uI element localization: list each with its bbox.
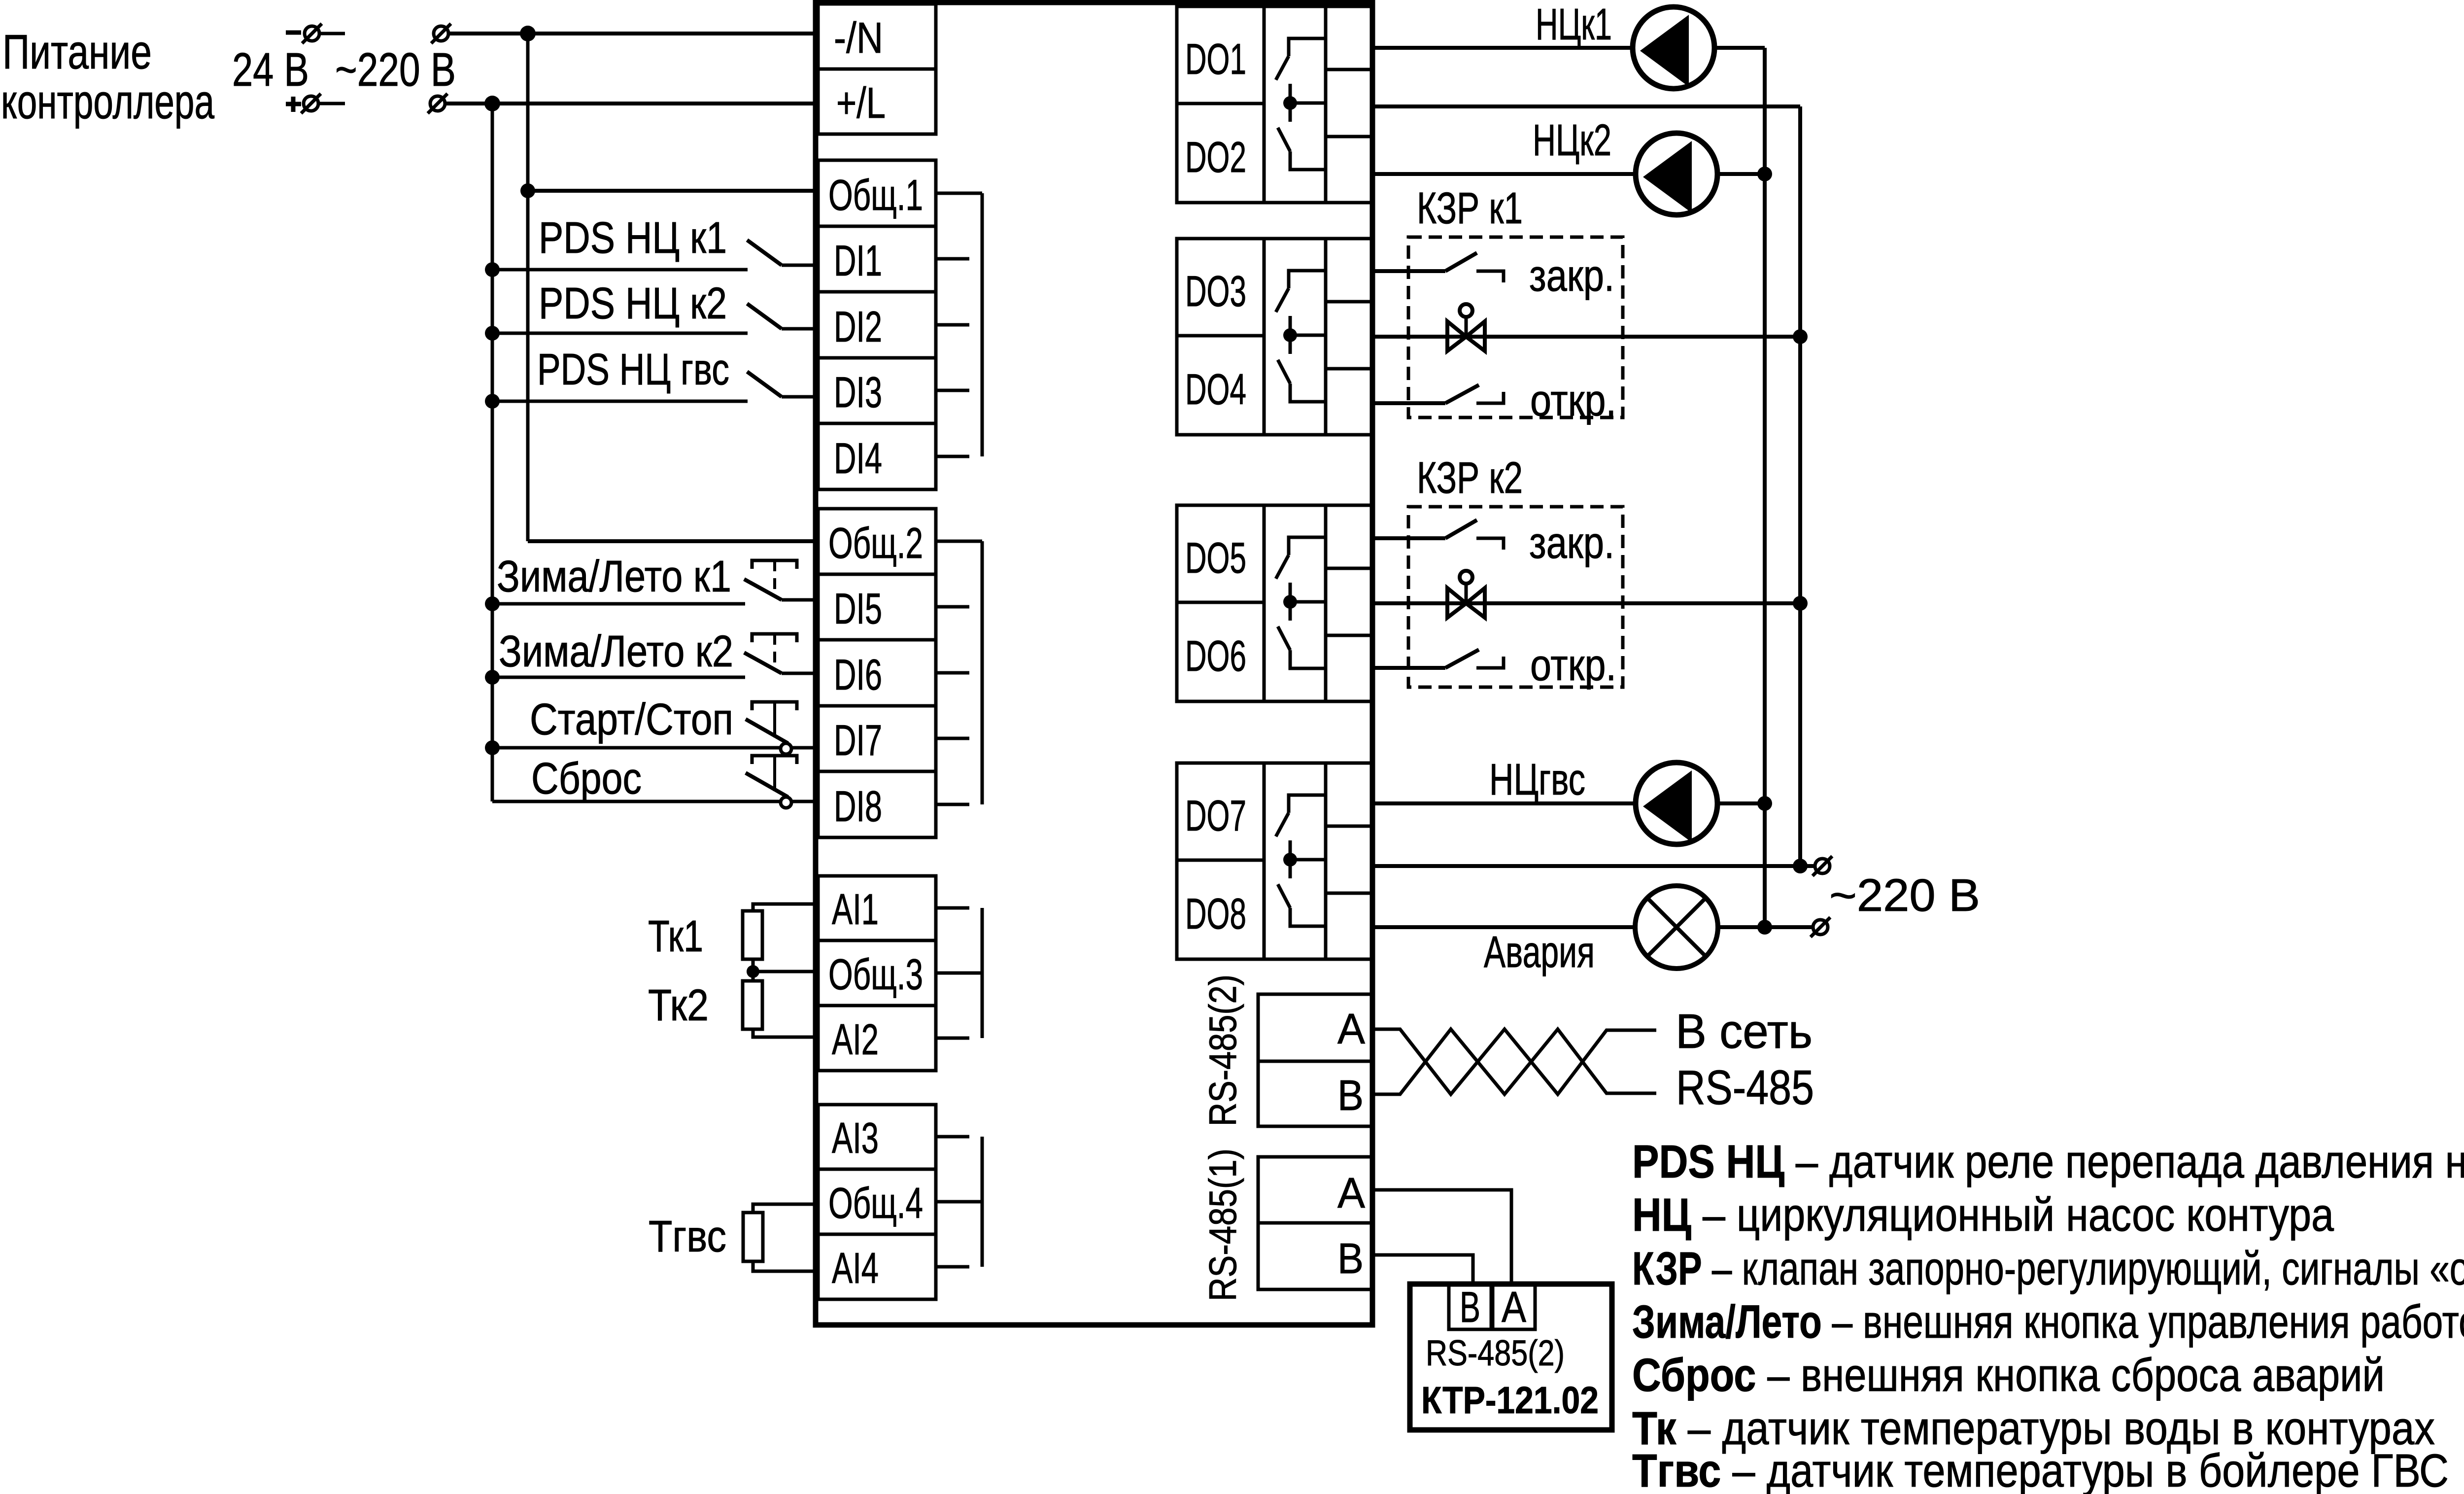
switch blade PDS NC k1 — [747, 240, 782, 265]
screw terminal ~220 top-left — [434, 26, 448, 41]
internal stub DI2 — [936, 323, 969, 327]
switch zakr k2 contact — [1476, 538, 1504, 550]
svg-text:НЦк2: НЦк2 — [1533, 116, 1611, 165]
internal stub AI1 — [936, 906, 969, 910]
relay pole line DO1 — [1289, 84, 1292, 122]
svg-text:Авария: Авария — [1484, 928, 1595, 977]
svg-text:PDS НЦ к2: PDS НЦ к2 — [539, 279, 727, 328]
relay pole wire DO3 — [1290, 334, 1326, 337]
svg-text:DO8: DO8 — [1185, 889, 1246, 938]
terminal DI7 box — [818, 706, 936, 771]
terminal DI8 box — [818, 771, 936, 837]
svg-text:RS-485(2): RS-485(2) — [1201, 974, 1244, 1126]
wire L line — [445, 102, 816, 105]
svg-text:AI1: AI1 — [832, 885, 879, 934]
relay DO5 top contact — [1289, 537, 1326, 555]
wire N line — [449, 32, 816, 35]
sensor Tgvs resistor — [743, 1213, 763, 1261]
RS-485(1) divider — [1258, 1221, 1373, 1225]
wire pump NCgvs to bus1 — [1717, 801, 1765, 805]
junction dot NCgvs-bus1 — [1757, 796, 1772, 811]
contact circle Sbros — [781, 797, 791, 808]
svg-text:DO1: DO1 — [1185, 35, 1246, 83]
internal stub DI7 — [936, 737, 969, 740]
internal stub Obsh.2 — [936, 540, 982, 543]
contact circle Start/Stop — [781, 743, 791, 754]
svg-text:Общ.4: Общ.4 — [828, 1179, 923, 1227]
wire PDS NC k2 to DI box — [782, 327, 818, 331]
svg-text:RS-485(2): RS-485(2) — [1426, 1333, 1565, 1373]
twisted pair wire A — [1373, 1029, 1656, 1094]
internal stub DI8 — [936, 803, 969, 806]
KTR terminal B box — [1449, 1284, 1491, 1329]
RS-485(1) terminal box — [1258, 1157, 1373, 1289]
pump НЦгвс — [1636, 763, 1717, 844]
relay DO1 top contact — [1289, 38, 1326, 56]
terminal AI4 box — [818, 1234, 936, 1299]
junction dot NCk2-bus1 — [1757, 167, 1772, 181]
terminal DI6 box — [818, 640, 936, 706]
relay pole line DO7 — [1289, 840, 1292, 878]
junction dot PDS NC k2 — [485, 326, 500, 341]
junction dot Tk — [747, 965, 759, 978]
twisted pair wire B — [1373, 1029, 1656, 1094]
wire pump NCk1 to bus1 — [1714, 46, 1765, 50]
terminal +/L box — [818, 69, 936, 134]
valve k1 body — [1447, 321, 1485, 351]
svg-text:-/N: -/N — [834, 13, 883, 62]
relay DO7 top contact — [1289, 795, 1326, 813]
relay DO3 top contact — [1289, 271, 1326, 288]
svg-text:~220 В: ~220 В — [1829, 869, 1980, 921]
junction dot lamp-bus1 — [1757, 920, 1772, 935]
relay DO4 bottom blade — [1278, 360, 1290, 383]
wire DO7 to pump NCgvs — [1373, 801, 1637, 805]
svg-text:DI5: DI5 — [834, 584, 882, 633]
relay pole dot DO1 — [1283, 96, 1297, 110]
bus L2 vertical — [491, 104, 494, 801]
svg-text:контроллера: контроллера — [1, 74, 214, 129]
relay pole wire DO1 — [1290, 102, 1326, 105]
terminal DI1 box — [818, 226, 936, 292]
relay DO6 bottom contact — [1290, 650, 1326, 668]
svg-text:КТР-121.02: КТР-121.02 — [1421, 1379, 1599, 1422]
svg-text:В сеть: В сеть — [1676, 1004, 1813, 1058]
DO block relay column line — [1263, 505, 1266, 701]
relay DO5 top blade — [1276, 555, 1289, 579]
svg-text:RS-485: RS-485 — [1676, 1060, 1814, 1114]
wire Zima/Leto k2 to DI box — [782, 672, 818, 675]
wire Start/Stop to DI box — [791, 746, 818, 750]
svg-text:НЦк1: НЦк1 — [1536, 0, 1612, 49]
DO terminal sub-divider a — [1326, 68, 1373, 71]
svg-text:закр.: закр. — [1529, 519, 1614, 568]
relay pole dot DO5 — [1283, 595, 1297, 609]
right bus 1 vertical — [1763, 48, 1767, 927]
svg-text:закр.: закр. — [1529, 251, 1614, 301]
DO terminal sub-divider b — [1326, 367, 1373, 371]
relay pole wire DO7 — [1290, 858, 1326, 862]
wire pump NCk2 to bus1 — [1717, 172, 1765, 176]
svg-text:AI2: AI2 — [832, 1015, 879, 1064]
DO terminal sub-divider b — [1326, 892, 1373, 895]
svg-text:Зима/Лето – внешняя кнопка упр: Зима/Лето – внешняя кнопка управления ра… — [1632, 1296, 2464, 1348]
svg-text:B: B — [1337, 1235, 1364, 1283]
wire RS-485(1) A — [1373, 1190, 1511, 1284]
switch otkr k1 contact — [1476, 392, 1504, 403]
switch blade Zima/Leto k1 — [744, 579, 782, 600]
screw terminal ~220 top-right — [1815, 859, 1830, 873]
right bus 2 vertical — [1798, 106, 1802, 866]
svg-text:DO4: DO4 — [1185, 365, 1246, 414]
svg-text:PDS НЦ гвс: PDS НЦ гвс — [537, 345, 729, 394]
wire Zima/Leto k2 fixed — [492, 676, 745, 679]
internal collector g2 — [981, 193, 984, 456]
internal stub AI2 — [936, 1037, 969, 1040]
svg-text:AI3: AI3 — [832, 1113, 879, 1162]
svg-text:Общ.2: Общ.2 — [828, 519, 923, 567]
wire DO4 otkr k1 — [1373, 401, 1445, 405]
svg-text:DO5: DO5 — [1185, 533, 1246, 582]
minus sign — [286, 31, 301, 35]
svg-text:Сброс – внешняя кнопка сброса: Сброс – внешняя кнопка сброса аварий — [1632, 1349, 2385, 1401]
svg-text:Старт/Стоп: Старт/Стоп — [530, 695, 733, 744]
DO terminal sub-divider b — [1326, 634, 1373, 637]
svg-text:Зима/Лето к1: Зима/Лето к1 — [497, 552, 731, 601]
wire from plus screw — [319, 102, 345, 105]
svg-text:Питание: Питание — [2, 25, 152, 79]
screw terminal plus — [304, 96, 318, 111]
relay pole dot DO3 — [1283, 328, 1297, 342]
junction dot L1-Obsh1 — [520, 183, 535, 198]
switch blade PDS NC gvs — [747, 372, 782, 397]
switch otkr k2 blade — [1445, 650, 1479, 668]
terminal DI3 box — [818, 358, 936, 423]
KTR-121.02 box — [1410, 1284, 1612, 1430]
internal stub AI3 — [936, 1135, 969, 1139]
wire Tk1 to AI1 — [753, 904, 818, 911]
svg-text:DI4: DI4 — [834, 434, 882, 483]
button stem Sbros — [773, 756, 776, 791]
DO block relay column line — [1263, 763, 1266, 959]
svg-text:+/L: +/L — [836, 78, 886, 127]
button bracket Sbros — [752, 756, 797, 764]
svg-text:Общ.1: Общ.1 — [828, 171, 923, 219]
svg-text:Тгвс: Тгвс — [649, 1212, 726, 1261]
switch dashed stem Zima/Leto k1 — [773, 560, 776, 597]
wire DO2 to pump NCk2 — [1373, 172, 1636, 176]
internal stub DI1 — [936, 257, 969, 261]
terminal AI2 box — [818, 1006, 936, 1071]
switch blade PDS NC k2 — [747, 304, 782, 329]
DO block terminal column line — [1324, 505, 1328, 701]
terminal Obsh4 box — [818, 1169, 936, 1234]
DO terminal sub-divider a — [1326, 825, 1373, 828]
KTR terminal A box — [1493, 1284, 1535, 1329]
wire Tk common to Obsh.3 — [753, 970, 818, 973]
relay pole line DO3 — [1289, 316, 1292, 354]
wire Tk2 to AI2 — [753, 1029, 818, 1037]
svg-text:DO7: DO7 — [1185, 791, 1246, 840]
junction dot PDS NC gvs — [485, 394, 500, 409]
wire Zima/Leto k1 to DI box — [782, 598, 818, 602]
internal collector g5 — [981, 1137, 984, 1267]
DO block terminal column line — [1324, 763, 1328, 959]
svg-text:НЦ – циркуляционный насос конт: НЦ – циркуляционный насос контура — [1632, 1189, 2334, 1241]
terminal DI5 box — [818, 574, 936, 640]
junction dot PDS NC k1 — [485, 262, 500, 277]
relay DO3 top blade — [1276, 288, 1289, 312]
pump НЦк2 — [1636, 133, 1717, 215]
svg-text:Тгвс – датчик температуры в бо: Тгвс – датчик температуры в бойлере ГВС — [1632, 1445, 2449, 1494]
wire PDS NC k1 fixed — [492, 268, 748, 272]
relay DO1 top blade — [1276, 56, 1289, 80]
wire DO1 to pump NCk1 — [1373, 46, 1633, 50]
svg-text:~220 В: ~220 В — [335, 43, 456, 96]
svg-text:DI2: DI2 — [834, 302, 882, 351]
valve k2 head — [1460, 571, 1472, 584]
relay pole wire DO5 — [1290, 600, 1326, 604]
terminal Obsh1 box — [818, 160, 936, 226]
wire RS-485(1) B — [1373, 1255, 1473, 1284]
relay DO6 bottom blade — [1278, 626, 1290, 650]
bus L1 vertical — [526, 34, 530, 541]
switch bracket Zima/Leto k1 — [752, 560, 797, 569]
button stem Start/Stop — [773, 702, 776, 737]
relay DO2 bottom blade — [1278, 128, 1290, 151]
relay DO4 bottom contact — [1290, 383, 1326, 402]
button bracket Start/Stop — [752, 702, 797, 710]
relay DO7 top blade — [1276, 813, 1289, 836]
svg-text:Тк2: Тк2 — [648, 981, 709, 1030]
svg-text:PDS НЦ к1: PDS НЦ к1 — [539, 213, 727, 263]
wire to Obsh.1 — [528, 189, 818, 193]
DO block divider DO5 — [1177, 601, 1264, 604]
junction dot valve k2 bus2 — [1793, 596, 1808, 611]
svg-text:DO3: DO3 — [1185, 267, 1246, 315]
switch blade Start/Stop — [746, 719, 788, 743]
relay pole dot DO7 — [1283, 853, 1297, 867]
DO block divider DO1 — [1177, 102, 1264, 105]
pump НЦк1 — [1633, 7, 1714, 89]
relay DO8 bottom contact — [1290, 908, 1326, 926]
internal collector g4 — [981, 908, 984, 1038]
svg-text:НЦгвс: НЦгвс — [1489, 755, 1585, 804]
svg-text:A: A — [1337, 1169, 1365, 1217]
wire PDS NC gvs fixed — [492, 400, 748, 403]
internal stub DI6 — [936, 671, 969, 675]
svg-text:DI7: DI7 — [834, 716, 882, 764]
wire Zima/Leto k1 fixed — [492, 602, 745, 606]
svg-text:B: B — [1460, 1283, 1480, 1331]
wire Sbros fixed — [492, 800, 781, 803]
wire Tgvs to Obsh.4 — [753, 1204, 818, 1213]
svg-text:DI1: DI1 — [834, 236, 882, 285]
svg-text:DI8: DI8 — [834, 782, 882, 831]
svg-text:Зима/Лето к2: Зима/Лето к2 — [499, 627, 733, 676]
wire to Obsh.2 — [528, 539, 818, 543]
wire lamp to screw — [1718, 925, 1813, 929]
terminal DI4 box — [818, 423, 936, 489]
valve k1 head — [1460, 304, 1472, 317]
switch dashed stem Zima/Leto k2 — [773, 634, 776, 670]
internal stub Obsh.4 — [936, 1200, 982, 1204]
switch blade Sbros — [746, 773, 788, 797]
switch otkr k1 blade — [1445, 385, 1479, 403]
wire Tgvs to AI4 — [753, 1261, 818, 1271]
svg-text:КЗР – клапан запорно-регулирую: КЗР – клапан запорно-регулирующий, сигна… — [1632, 1243, 2464, 1295]
svg-text:Тк1: Тк1 — [648, 912, 703, 961]
internal collector g3 — [981, 541, 984, 804]
svg-text:КЗР к2: КЗР к2 — [1417, 453, 1523, 503]
switch zakr k1 contact — [1476, 271, 1504, 282]
terminal -/N box — [818, 4, 936, 69]
screw terminal minus — [305, 26, 319, 41]
svg-text:Сброс: Сброс — [531, 754, 642, 803]
terminal DI2 box — [818, 292, 936, 358]
valve k1 stem — [1465, 318, 1468, 337]
DO terminal sub-divider b — [1326, 135, 1373, 139]
svg-text:B: B — [1337, 1072, 1364, 1119]
sensor Tk1 resistor — [743, 911, 762, 959]
junction dot Start/Stop — [485, 740, 500, 755]
switch zakr k1 blade — [1445, 253, 1477, 271]
svg-text:откр.: откр. — [1530, 641, 1616, 690]
svg-text:откр.: откр. — [1530, 376, 1616, 425]
lamp Авария — [1635, 886, 1718, 969]
plus sign — [286, 102, 301, 106]
internal stub AI4 — [936, 1265, 969, 1269]
DO terminal sub-divider a — [1326, 300, 1373, 304]
relay DO2 bottom contact — [1290, 151, 1326, 170]
junction dot common-bus2 — [1793, 859, 1808, 873]
internal stub DI5 — [936, 605, 969, 609]
valve k2 stem — [1465, 585, 1468, 603]
DO block terminal column line — [1324, 6, 1328, 203]
terminal Obsh3 box — [818, 940, 936, 1006]
svg-text:КЗР к1: КЗР к1 — [1417, 184, 1523, 233]
controller main box outline — [816, 2, 1372, 1325]
DO block terminal column line — [1324, 239, 1328, 435]
wire DO34 common valve k1 — [1373, 335, 1800, 339]
DO block DO7/DO8 outline — [1177, 763, 1373, 959]
valve k2 body — [1447, 588, 1485, 618]
DO block DO5/DO6 outline — [1177, 505, 1373, 701]
KZR k1 dashed box — [1408, 237, 1623, 417]
switch blade Zima/Leto k2 — [744, 653, 782, 673]
svg-text:RS-485(1): RS-485(1) — [1201, 1148, 1244, 1301]
svg-text:DI6: DI6 — [834, 650, 882, 699]
sensor Tk2 resistor — [743, 981, 762, 1029]
wire DO78 common to screw — [1373, 864, 1814, 868]
svg-text:DO6: DO6 — [1185, 631, 1246, 680]
svg-text:24 В: 24 В — [232, 43, 309, 96]
wire PDS NC k2 fixed — [492, 332, 748, 335]
wire Tk1-Tk2 link — [752, 959, 755, 981]
screw terminal ~220 bottom-right — [1813, 920, 1828, 935]
wire PDS NC k1 to DI box — [782, 264, 818, 267]
wire DO56 common valve k2 — [1373, 601, 1800, 605]
switch zakr k2 blade — [1445, 520, 1477, 538]
junction dot Zima/Leto k1 — [485, 596, 500, 611]
RS-485(2) divider — [1258, 1060, 1373, 1063]
DO block divider DO7 — [1177, 859, 1264, 862]
wire DO3 zakr k1 — [1373, 269, 1445, 273]
svg-text:AI4: AI4 — [832, 1244, 879, 1292]
internal stub Obsh.3 — [936, 972, 982, 975]
wire PDS NC gvs to DI box — [782, 395, 818, 399]
DO block DO3/DO4 outline — [1177, 239, 1373, 435]
relay DO8 bottom blade — [1278, 884, 1290, 908]
wire DO8 to lamp — [1373, 925, 1635, 929]
wire DO6 otkr k2 — [1373, 666, 1445, 670]
junction dot N/L1 — [520, 26, 536, 41]
switch bracket Zima/Leto k2 — [752, 634, 797, 642]
RS-485(2) terminal box — [1258, 994, 1373, 1126]
terminal AI1 box — [818, 876, 936, 940]
screw terminal ~220 bottom-left — [430, 96, 445, 111]
internal stub Obsh.1 — [936, 192, 982, 195]
relay pole line DO5 — [1289, 583, 1292, 621]
svg-text:PDS НЦ – датчик реле перепада: PDS НЦ – датчик реле перепада давления н… — [1632, 1136, 2464, 1188]
internal stub DI4 — [936, 455, 969, 458]
terminal Obsh2 box — [818, 509, 936, 574]
wire Sbros to DI box — [791, 800, 818, 803]
DO block relay column line — [1263, 239, 1266, 435]
svg-text:Общ.3: Общ.3 — [828, 950, 923, 999]
wire Start/Stop fixed — [492, 746, 781, 750]
wire DO12 common to bus2 — [1373, 104, 1800, 108]
terminal AI3 box — [818, 1105, 936, 1169]
DO terminal sub-divider a — [1326, 567, 1373, 570]
DO block relay column line — [1263, 6, 1266, 203]
junction dot valve k1 bus2 — [1793, 329, 1808, 344]
KZR k2 dashed box — [1408, 507, 1623, 687]
DO block divider DO3 — [1177, 334, 1264, 338]
junction dot L/L2 — [484, 96, 500, 111]
wire DO5 zakr k2 — [1373, 536, 1445, 540]
svg-text:A: A — [1502, 1283, 1526, 1331]
DO block DO1/DO2 outline — [1177, 6, 1373, 203]
svg-text:A: A — [1337, 1005, 1365, 1053]
svg-text:DI3: DI3 — [834, 368, 882, 417]
wire from minus screw — [320, 32, 345, 35]
switch otkr k2 contact — [1476, 657, 1504, 668]
internal stub DI3 — [936, 389, 969, 392]
junction dot Zima/Leto k2 — [485, 670, 500, 685]
svg-text:DO2: DO2 — [1185, 133, 1246, 181]
